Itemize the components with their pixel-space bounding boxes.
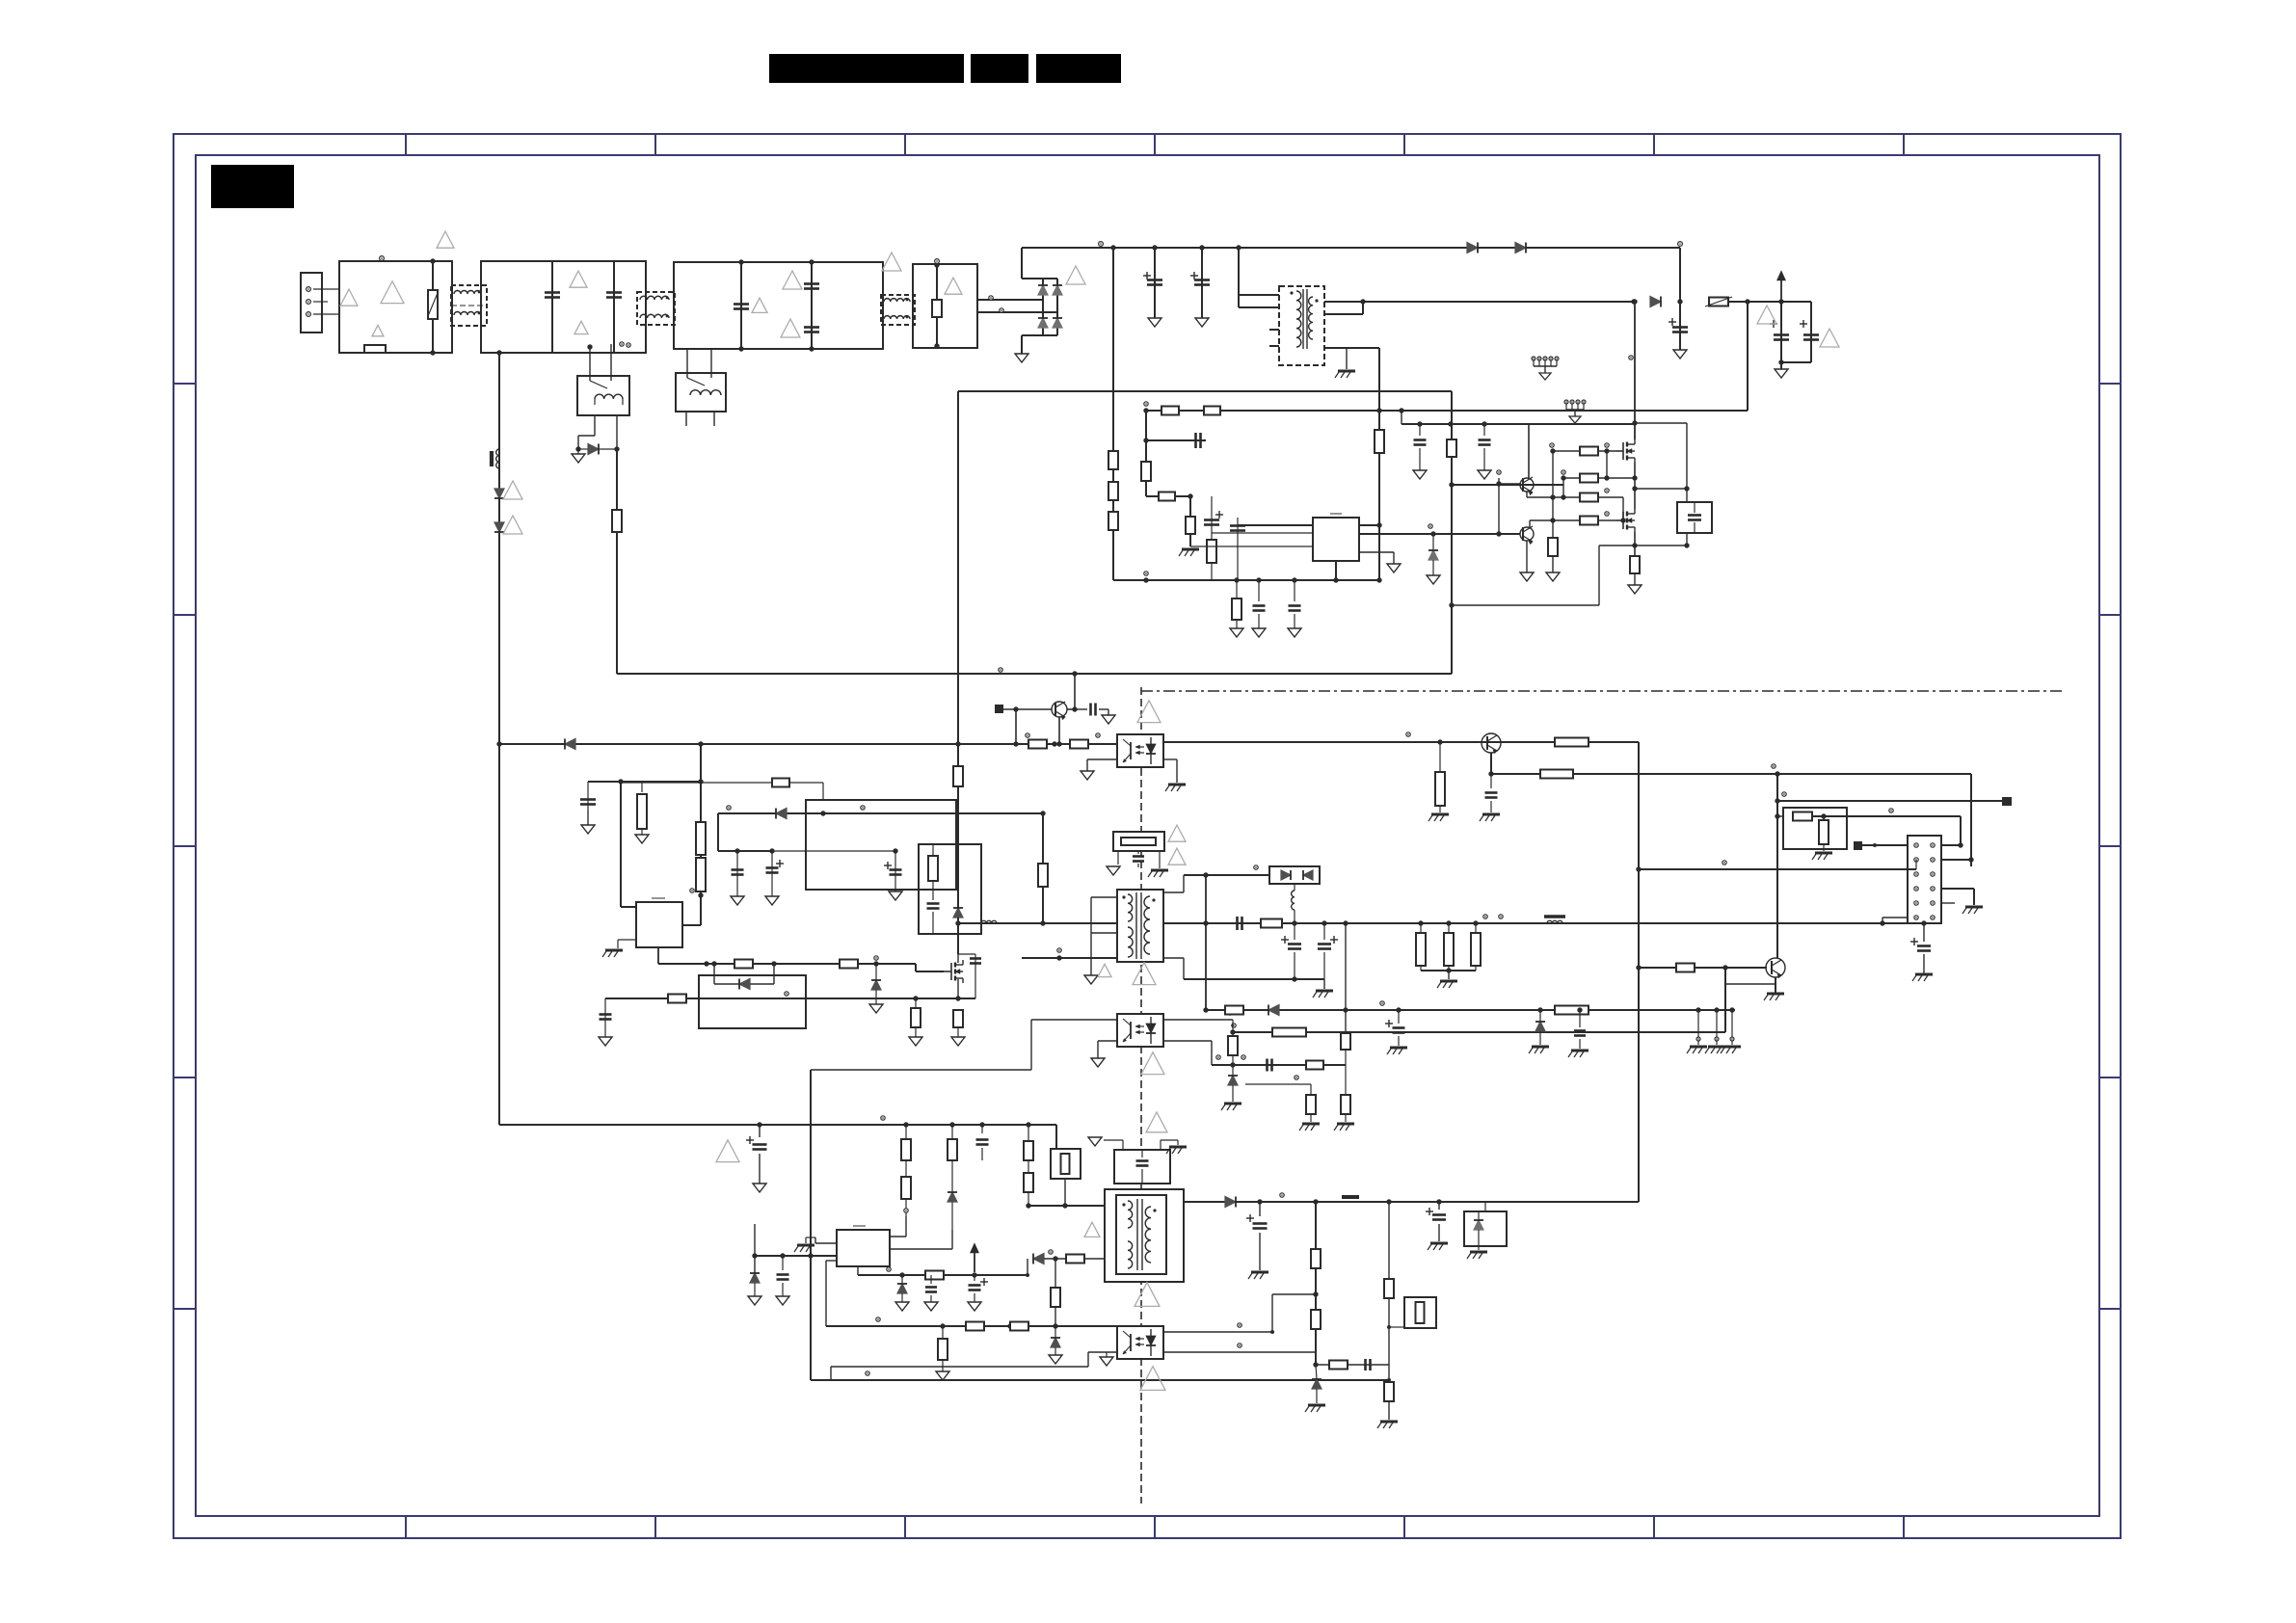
wire comp vertical	[1145, 411, 1147, 496]
Y-capacitor bridge box	[1113, 832, 1164, 851]
wire x1611 riser	[1552, 451, 1554, 520]
triangle warning S3	[1135, 1283, 1160, 1307]
zener D28	[1312, 1379, 1322, 1389]
wire U3 output line	[1163, 741, 1639, 743]
wire U4 left bottom	[1098, 1040, 1117, 1042]
resistor R8	[1141, 462, 1151, 481]
capacitor C31 electrolytic	[974, 1275, 975, 1281]
ground bridge negative	[1021, 353, 1023, 355]
resistor R47	[1310, 1084, 1312, 1095]
ground Y-box left	[1094, 1136, 1096, 1138]
wire J1 to line filter	[313, 288, 339, 290]
resistor R72 base-emitter	[1552, 520, 1554, 538]
wire relay drive down	[616, 449, 618, 674]
supply arrow aux	[974, 1251, 975, 1272]
sheet border zone ticks	[174, 134, 2121, 1538]
ground earth aux2	[1708, 1046, 1725, 1049]
isolation barrier dash-dot horizontal	[1141, 690, 2064, 692]
wire T2 primary return	[1022, 957, 1117, 959]
connector CN1	[1908, 836, 1941, 923]
wire +B feed line	[1146, 410, 1748, 412]
capacitor C5 electrolytic	[1810, 302, 1812, 362]
resistor R37	[1793, 812, 1812, 821]
ground Q2 emitter	[1526, 572, 1528, 573]
triangle warning S2	[1084, 1222, 1100, 1237]
wire T2 secondary return	[1163, 957, 1184, 959]
triangle warning A4	[437, 231, 454, 248]
snubber box M3	[919, 844, 981, 934]
ground C39	[1294, 627, 1295, 629]
wire M1 drain riser	[1634, 302, 1636, 439]
resistor R39	[1676, 964, 1695, 972]
diode D26	[1225, 1197, 1236, 1208]
capacitor C25 electrolytic	[1398, 1010, 1400, 1024]
wire U2 aux caps	[718, 850, 772, 852]
wire CN1 pin4 right	[1941, 859, 1971, 861]
wire mid node to snubber	[1635, 488, 1687, 490]
ground U3 left	[1086, 770, 1088, 772]
capacitor C38	[1258, 580, 1260, 601]
ground earth aux3	[1723, 1046, 1741, 1049]
wire feedback low line	[1724, 968, 1726, 1032]
resistor R6	[1161, 407, 1179, 415]
wire U5 return vertical	[808, 1253, 813, 1258]
wire tag to connector	[1861, 844, 1908, 846]
wire Q2 emitter	[1526, 541, 1528, 572]
resistor R46	[1306, 1061, 1323, 1070]
wire R66 bottom	[1388, 1365, 1390, 1382]
capacitor C18	[1490, 774, 1492, 788]
wire T2 primary top	[958, 922, 1117, 924]
capacitor C20	[1236, 917, 1239, 930]
resistor R33	[953, 1010, 963, 1027]
wire source return	[1599, 545, 1687, 546]
resistor R17 sense	[1630, 556, 1640, 573]
wire zener box top	[1484, 1202, 1486, 1211]
capacitor C17	[604, 998, 606, 1037]
wire fb to opto	[1272, 1293, 1316, 1295]
resistor R27	[772, 779, 789, 787]
resistor R59	[966, 1322, 984, 1331]
wire sense divider	[1042, 813, 1044, 923]
pin sense line	[785, 992, 788, 996]
capacitor C30	[930, 1275, 932, 1284]
ground R72	[1552, 572, 1554, 573]
wire divider link	[1777, 815, 1783, 817]
transistor Q1 driver	[1520, 478, 1534, 492]
wire vcc from rail	[754, 1224, 756, 1273]
wire aux 12V line	[1206, 1009, 1735, 1011]
junction +B 1	[1677, 299, 1682, 304]
ground earth C23	[1915, 973, 1933, 976]
relay RL1	[577, 376, 629, 415]
ground C12	[736, 895, 738, 897]
pins rail	[1483, 915, 1487, 918]
triangle warning S1	[1146, 1112, 1167, 1132]
MOSFET M1 upper	[1622, 442, 1624, 460]
wire U6 right top	[1163, 1331, 1272, 1333]
opto-coupler U3	[1117, 734, 1163, 767]
ground earth D27	[1478, 1246, 1480, 1250]
resistor R10	[1186, 517, 1195, 534]
wire comp mid	[1146, 439, 1205, 441]
ground C14	[894, 891, 896, 892]
resistor R32	[915, 998, 917, 1008]
triangle warning A5	[570, 271, 587, 287]
capacitor C11	[587, 782, 589, 825]
ground C36	[1419, 469, 1421, 471]
zener D29	[1432, 534, 1434, 550]
resistor R11	[1207, 540, 1216, 563]
wire gate row1	[1553, 450, 1580, 452]
capacitor C2 bulk	[1201, 248, 1203, 318]
wire U1 sense pin	[1359, 551, 1394, 553]
resistor box S4	[1404, 1297, 1436, 1328]
node tag square	[996, 705, 1002, 712]
junction onoff	[1775, 798, 1779, 803]
resistor R55	[1028, 1125, 1029, 1141]
wire C4 C5 common	[1781, 361, 1811, 363]
wire bridge negative to ground	[1022, 334, 1043, 336]
resistor R42	[1420, 923, 1422, 933]
wire U5 right pins	[890, 1236, 906, 1237]
wire bridge output to +rail	[1022, 278, 1043, 279]
wire M3 drain	[957, 918, 959, 963]
wire FB3 node 2	[811, 262, 813, 349]
resistor R30	[953, 766, 963, 786]
ground RL1	[577, 449, 579, 454]
ground R22	[641, 834, 643, 836]
wire gate row2	[1562, 470, 1565, 474]
wire T2 aux stubs	[1091, 896, 1117, 898]
triangle warning A6	[574, 321, 588, 333]
wire CN1 pin6 right	[1941, 888, 1974, 890]
wire lower fb line	[1316, 1364, 1389, 1366]
wire x1622 riser	[1562, 478, 1564, 497]
resistor R36	[1540, 770, 1573, 779]
diode D15	[953, 908, 963, 918]
resistor R66	[1384, 1279, 1394, 1298]
resistor R63	[1311, 1249, 1321, 1268]
varistor RV1	[432, 261, 434, 353]
wire PFC switch bus	[957, 391, 959, 954]
diode D10 relay	[578, 448, 588, 450]
pin stubs RL2 coil	[685, 412, 687, 426]
ground D22	[754, 1295, 756, 1297]
wire Y-box right stub	[1160, 1140, 1161, 1150]
ground earth C33	[1251, 1271, 1268, 1274]
wire Y-box stubs	[1122, 1140, 1124, 1150]
MOSFET M3 PFC	[950, 963, 952, 980]
resistor R45	[1232, 1020, 1234, 1036]
resistor R53	[901, 1177, 911, 1199]
wire snubber return	[1686, 533, 1688, 545]
wire +310V rail	[1022, 247, 1680, 249]
wire switching node	[1634, 463, 1636, 509]
ground D29	[1432, 574, 1434, 576]
ground U6 left	[1106, 1352, 1108, 1357]
resistor R57	[925, 1271, 944, 1280]
capacitor CX1	[545, 291, 560, 294]
zener D25	[1055, 1326, 1056, 1338]
wire M2 source	[1634, 532, 1636, 556]
transistor Q5	[1482, 733, 1501, 753]
capacitor C29	[782, 1256, 784, 1270]
wire +B down to half-bridge	[1747, 302, 1749, 411]
resistor R7	[1204, 407, 1220, 415]
wire CN1 bottom left	[1882, 917, 1908, 918]
triangle warning A7	[752, 298, 767, 312]
resistor R50	[1225, 1006, 1243, 1015]
wire R5 to +B node	[1728, 301, 1811, 303]
wire U1 pin2	[1212, 532, 1313, 534]
inductor L4 ferrite bead	[490, 451, 494, 466]
fusible resistor R5	[1709, 298, 1728, 306]
ground earth Y-box	[1169, 1146, 1187, 1149]
common-mode choke L1 (dashed)	[451, 285, 487, 326]
diode D19	[1268, 1005, 1279, 1016]
ground earth C25	[1390, 1047, 1407, 1050]
ground earth CN1	[1965, 906, 1983, 909]
wire PFC bus up right	[1451, 391, 1453, 674]
pin-comb on +B feed	[1564, 400, 1568, 404]
wire U1 pin1	[1238, 524, 1313, 526]
wire Q5 emitter	[1490, 753, 1492, 774]
wire FB4 to bridge upper	[977, 299, 1043, 301]
IC U1 PWM controller	[1313, 518, 1359, 561]
wire Q6 emitter	[1775, 977, 1776, 993]
capacitor C27 electrolytic	[759, 1125, 761, 1137]
wire M3 snub riser	[958, 953, 975, 955]
resistor R19	[1028, 740, 1047, 749]
capacitor C21 electrolytic	[1294, 923, 1295, 940]
resistor R14	[1580, 474, 1598, 483]
triangle warning A10	[882, 253, 901, 271]
capacitor C23 electrolytic	[1923, 923, 1925, 942]
resistor R41	[1261, 919, 1282, 928]
capacitor C10	[1075, 708, 1087, 710]
wire U2 left feed	[620, 782, 622, 907]
pin FB4 top	[935, 259, 940, 264]
diode D13 feedback	[713, 964, 715, 984]
resistor R61	[1010, 1322, 1028, 1331]
wire comp down 1	[1189, 496, 1191, 546]
wire fb filter line	[1212, 1064, 1346, 1066]
ground C17	[604, 1036, 606, 1038]
wire shield line	[718, 812, 1043, 814]
triangle warning M1	[1137, 701, 1161, 723]
ground C4C5	[1780, 362, 1782, 369]
ground earth U3	[1168, 784, 1186, 786]
wire collector riser	[1074, 674, 1076, 709]
wire row3 to M2 gate	[1598, 496, 1623, 498]
common-mode choke L3 (dashed)	[881, 295, 915, 325]
wire CN1 pin2 right	[1941, 844, 1961, 846]
capacitor C16	[970, 957, 981, 960]
resistor R65	[1329, 1361, 1348, 1370]
ground earth D20	[1532, 1046, 1549, 1049]
wire vcc aux line	[1401, 411, 1402, 424]
wire rail end down	[1679, 248, 1681, 302]
wire PFC vcc line	[499, 743, 1118, 745]
wire U1 pin3	[1190, 545, 1313, 547]
ground D12	[875, 1003, 877, 1005]
redacted sheet label box	[212, 166, 293, 207]
wire FB4 to bridge lower	[977, 311, 1057, 313]
wire sense line	[826, 1325, 1117, 1327]
resistor R58	[1066, 1255, 1084, 1264]
zener D18	[1232, 1065, 1234, 1076]
junction feedback crossing	[1636, 866, 1641, 871]
wire RL1 coil right	[616, 415, 618, 449]
ground C10	[1108, 714, 1109, 716]
wire U4 right top	[1163, 1019, 1233, 1021]
resistor R16	[1580, 517, 1598, 525]
pin-comb ground tap	[1532, 357, 1535, 360]
capacitor C8	[1237, 518, 1239, 580]
ground earth R34	[1439, 806, 1441, 812]
ground earth comp	[1182, 548, 1199, 551]
resistor R56	[1024, 1173, 1033, 1192]
capacitor C7 electrolytic	[1204, 519, 1219, 521]
resistor R40	[1121, 838, 1156, 845]
IC U2 PFC controller	[636, 902, 682, 947]
ground earth T1	[1346, 348, 1348, 369]
IC U5 inverter controller	[837, 1230, 890, 1266]
resistor R51	[1555, 1006, 1589, 1015]
wire resistor common	[1421, 970, 1476, 971]
wire secondary to +B	[1631, 299, 1636, 304]
transistor Q3	[1052, 702, 1067, 717]
capacitor C19	[1137, 851, 1139, 854]
ground earth R47	[1302, 1123, 1320, 1126]
wire U1 gate drive	[1359, 533, 1520, 535]
module outline box	[806, 800, 956, 890]
transistor Q2 driver	[1520, 527, 1534, 541]
zener D27	[1474, 1220, 1483, 1230]
triangle warning O1	[1168, 825, 1186, 841]
wire Q2 collector row4	[1529, 520, 1531, 527]
wire feedback right down	[1638, 742, 1640, 1202]
ground sense	[1634, 584, 1636, 586]
triangle warning O3	[1098, 964, 1111, 976]
wire U3 right bottom	[1163, 758, 1177, 760]
resistor R4	[1108, 512, 1118, 530]
wire source sense line	[605, 998, 975, 999]
capacitor C22 electrolytic	[1323, 923, 1325, 940]
capacitor C6	[1194, 433, 1197, 448]
wire M3 source	[957, 979, 959, 998]
junction base	[1722, 965, 1727, 970]
resistor R20	[1070, 740, 1088, 749]
resistor R35	[1555, 738, 1589, 747]
resistor R52	[905, 1125, 907, 1139]
ground U4 left	[1097, 1057, 1099, 1059]
resistor R15	[1580, 493, 1598, 502]
capacitor C1 bulk	[1154, 248, 1156, 318]
pin top of FB1	[380, 256, 385, 261]
ground R33	[957, 1036, 959, 1038]
wire U3 left bottom to ground	[1087, 758, 1117, 760]
pin 12V line	[1772, 764, 1775, 768]
zener D12	[875, 964, 877, 980]
wire U4 right bottom	[1163, 1040, 1212, 1042]
pin U5 out	[887, 1267, 891, 1271]
zener D22	[750, 1273, 760, 1283]
inductor L7	[1547, 920, 1562, 923]
node tag square 2	[2003, 798, 2011, 805]
capacitor C35	[1364, 1359, 1367, 1370]
ground earth C34	[1430, 1242, 1448, 1245]
resistor R48	[1345, 1065, 1347, 1095]
opto-coupler U6	[1117, 1326, 1163, 1359]
triangle warning P2	[1141, 1052, 1164, 1075]
resistor R54	[951, 1125, 953, 1139]
pin R53	[904, 1209, 908, 1212]
thermistor box	[1051, 1149, 1081, 1179]
isolation barrier dash-dot vertical	[1140, 687, 1142, 1503]
ground C3	[1679, 349, 1681, 351]
resistor R38	[1819, 820, 1829, 844]
junction comp top	[1144, 402, 1148, 406]
wire U2 bottom pin	[657, 947, 659, 964]
junction PFC bus	[955, 741, 960, 746]
wire driver base riser	[1497, 470, 1501, 474]
wire x1667 riser	[1606, 451, 1608, 478]
ground earth U5	[797, 1244, 814, 1247]
transformer T1 (dashed box)	[1279, 286, 1324, 365]
resistor R31	[668, 995, 686, 1003]
triangle warning O2	[1168, 848, 1186, 865]
wire relay drive to PFC bus	[617, 673, 1452, 675]
ground earth R48	[1337, 1123, 1354, 1126]
wire base-emitter tie	[1724, 968, 1726, 984]
diode D9	[494, 522, 504, 532]
triangle warning B2	[1820, 329, 1839, 347]
wire rail to T1 primary	[1238, 248, 1240, 307]
diode D5 rail	[1467, 243, 1478, 253]
wire rail corner down	[1055, 1125, 1057, 1149]
wire gate line	[658, 963, 916, 965]
ground earth R67	[1380, 1421, 1398, 1423]
wire comp down 2	[1211, 496, 1213, 580]
resistor R68	[1272, 1028, 1306, 1037]
common-mode choke L2 (dashed)	[637, 292, 675, 325]
pin aux line	[1380, 1001, 1384, 1005]
triangle warning A8	[783, 271, 802, 289]
resistor R18	[612, 510, 622, 532]
resistor R1 bleeder	[936, 264, 938, 348]
ground earth C26	[1571, 1050, 1589, 1052]
EMI filter block FB3	[674, 262, 883, 349]
wire inverter rail	[499, 1124, 1056, 1126]
wire 5V line to connector	[1638, 868, 1916, 870]
ground R60	[942, 1370, 944, 1372]
resistor R62	[1055, 1259, 1056, 1288]
diode D21	[948, 1192, 957, 1202]
wire onoff vertical	[1776, 774, 1778, 958]
resistor R26	[840, 960, 858, 969]
wire fb divider vertical	[1315, 1202, 1317, 1365]
ground R32	[915, 1036, 917, 1038]
resistor R43	[1448, 923, 1450, 933]
wire Q3 emitter	[1058, 717, 1060, 744]
triangle warning P1	[1133, 963, 1156, 985]
pin FB2 bottom	[627, 343, 630, 347]
ground earth Q6	[1767, 993, 1784, 996]
connector J1 AC inlet	[301, 273, 322, 333]
wire remote line down	[1970, 774, 1972, 866]
